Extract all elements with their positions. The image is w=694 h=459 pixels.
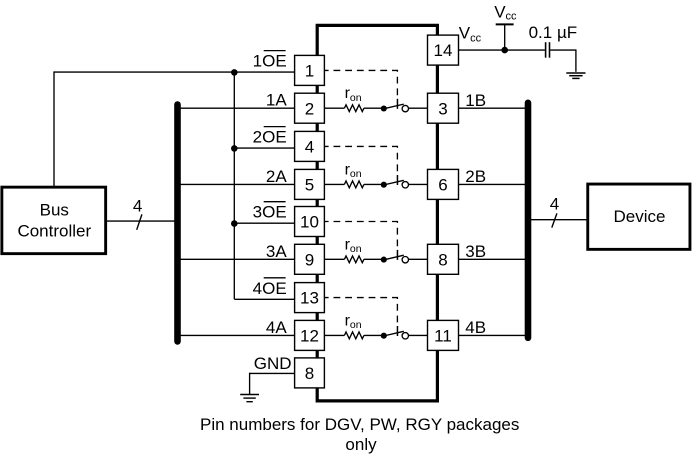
resistor r_on channel 1 bbox=[344, 85, 364, 111]
wire IC top rail bbox=[317, 25, 437, 56]
wire Vcc net pin 14 to capacitor bbox=[459, 49, 545, 51]
svg-text:1OE: 1OE bbox=[253, 52, 287, 71]
svg-text:Bus: Bus bbox=[40, 200, 69, 219]
svg-text:Pin numbers for DGV, PW, RGY p: Pin numbers for DGV, PW, RGY packages bbox=[200, 415, 519, 434]
wire left pin column spine bbox=[316, 160, 319, 170]
svg-text:2A: 2A bbox=[266, 167, 287, 186]
wire left pin column spine bbox=[316, 349, 319, 359]
switch arm channel 1 bbox=[384, 104, 404, 109]
svg-text:5: 5 bbox=[305, 176, 314, 195]
svg-text:12: 12 bbox=[300, 327, 319, 346]
net label 2OE bbox=[253, 127, 287, 147]
wire pin to resistor channel 3 bbox=[324, 258, 344, 260]
wire capacitor to ground corner bbox=[550, 49, 576, 51]
switch contact circle channel 2 bbox=[402, 182, 408, 188]
wire resistor to switch channel 3 bbox=[364, 258, 382, 260]
switch contact circle channel 4 bbox=[402, 333, 408, 339]
pin 13 (left) bbox=[295, 283, 325, 313]
pin 5 (left) bbox=[295, 169, 325, 199]
wire pin to resistor channel 1 bbox=[324, 107, 344, 109]
switch pole stroke channel 2 bbox=[396, 175, 398, 185]
wire resistor to switch channel 1 bbox=[364, 107, 382, 109]
svg-text:Device: Device bbox=[614, 207, 666, 226]
wire resistor to switch channel 2 bbox=[364, 183, 382, 185]
node left bus bar bbox=[174, 105, 181, 342]
pin 14 (right) bbox=[428, 35, 459, 65]
pin 12 (left) bbox=[295, 320, 325, 350]
wire GND down bbox=[249, 373, 251, 394]
wire 1OE net down to Bus Controller bbox=[53, 71, 55, 187]
wire 2A from bus bar bbox=[178, 183, 295, 185]
net label 3OE bbox=[253, 202, 287, 222]
Device block bbox=[588, 184, 690, 249]
wire GND pin 8 to ground bbox=[250, 372, 295, 374]
wire 3OE stub bbox=[234, 222, 294, 224]
wire left pin column spine bbox=[316, 312, 319, 322]
net label 4OE bbox=[253, 278, 287, 298]
dashed control wire channel 3 bbox=[324, 222, 397, 249]
wire 4A from bus bar bbox=[178, 334, 295, 336]
wire 3A from bus bar bbox=[178, 258, 295, 260]
wire right pin column spine bbox=[436, 64, 439, 94]
wire 4B to bus bar bbox=[459, 334, 529, 336]
wire IC bottom rail bbox=[317, 349, 437, 401]
caption text bbox=[200, 415, 519, 454]
wire left pin column spine bbox=[316, 122, 319, 132]
svg-text:4B: 4B bbox=[465, 318, 486, 337]
junction dot channel 3 bbox=[381, 257, 387, 263]
wire 2B to bus bar bbox=[459, 183, 529, 185]
wire right pin column spine bbox=[436, 198, 439, 245]
svg-text:8: 8 bbox=[438, 250, 447, 269]
resistor r_on channel 4 bbox=[344, 312, 364, 338]
svg-text:8: 8 bbox=[305, 364, 314, 383]
svg-text:4: 4 bbox=[305, 138, 314, 157]
pin 1 (left) bbox=[295, 55, 325, 85]
junction dot Vcc node bbox=[501, 47, 508, 54]
pin 8 (right) bbox=[428, 244, 459, 274]
svg-text:2OE: 2OE bbox=[253, 128, 287, 147]
switch arm channel 3 bbox=[384, 255, 404, 260]
wire bus bar to Device bbox=[528, 219, 588, 221]
pin 9 (left) bbox=[295, 244, 325, 274]
switch pole stroke channel 1 bbox=[396, 99, 398, 109]
wire right pin column spine bbox=[436, 273, 439, 321]
switch arm channel 4 bbox=[384, 331, 404, 336]
pin 11 (right) bbox=[428, 320, 459, 350]
net label 1OE bbox=[253, 51, 287, 71]
wire switch to pin channel 1 bbox=[408, 107, 427, 109]
capacitor C1 0.1 uF bbox=[529, 23, 578, 58]
wire left pin column spine bbox=[316, 84, 319, 94]
junction dot node 1OE bbox=[231, 69, 238, 76]
node right bus bar bbox=[525, 103, 532, 338]
switch contact circle channel 3 bbox=[402, 257, 408, 263]
svg-text:4: 4 bbox=[550, 195, 559, 214]
ground (decoupling) bbox=[566, 73, 585, 78]
wire 3B to bus bar bbox=[459, 258, 529, 260]
wire left pin column spine bbox=[316, 236, 319, 246]
wire 1A from bus bar bbox=[178, 107, 295, 109]
svg-text:14: 14 bbox=[434, 41, 453, 60]
wire resistor to switch channel 4 bbox=[364, 334, 382, 336]
svg-text:4OE: 4OE bbox=[253, 279, 287, 298]
wire switch to pin channel 3 bbox=[408, 258, 427, 260]
resistor r_on channel 2 bbox=[344, 161, 364, 187]
wire 1B to bus bar bbox=[459, 107, 529, 109]
junction dot channel 4 bbox=[381, 333, 387, 339]
wire 1OE net horizontal bbox=[54, 71, 295, 73]
dashed control wire channel 1 bbox=[324, 70, 397, 97]
svg-text:1B: 1B bbox=[465, 91, 486, 110]
svg-text:1A: 1A bbox=[266, 91, 287, 110]
svg-text:3OE: 3OE bbox=[253, 203, 287, 222]
pin 2 (left) bbox=[295, 93, 325, 123]
switch pole stroke channel 4 bbox=[396, 326, 398, 336]
pin 4 (left) bbox=[295, 131, 325, 161]
resistor r_on channel 3 bbox=[344, 236, 364, 262]
wire 4OE stub bbox=[234, 298, 294, 300]
svg-text:2: 2 bbox=[305, 99, 314, 118]
svg-text:2B: 2B bbox=[465, 167, 486, 186]
Vcc power symbol bbox=[494, 3, 517, 50]
pin 3 (right) bbox=[428, 93, 459, 123]
svg-text:only: only bbox=[345, 435, 377, 454]
wire Bus Controller to bus bar bbox=[107, 220, 178, 222]
pin 8 (left) bbox=[295, 358, 325, 388]
wire OE bus vertical bbox=[233, 72, 235, 299]
switch arm channel 2 bbox=[384, 180, 404, 185]
svg-text:13: 13 bbox=[300, 289, 319, 308]
pin 6 (right) bbox=[428, 169, 459, 199]
svg-text:3A: 3A bbox=[266, 242, 287, 261]
svg-text:Controller: Controller bbox=[17, 221, 91, 240]
svg-text:4: 4 bbox=[133, 196, 142, 215]
wire right pin column spine bbox=[436, 122, 439, 170]
dashed control wire channel 2 bbox=[324, 146, 397, 173]
svg-text:9: 9 bbox=[305, 250, 314, 269]
wire 2OE stub bbox=[234, 147, 294, 149]
bus width label 4 (left) bbox=[133, 196, 142, 230]
junction dot node 2OE bbox=[231, 145, 238, 152]
svg-text:11: 11 bbox=[434, 327, 452, 346]
junction dot channel 1 bbox=[381, 105, 387, 111]
wire down to ground bbox=[575, 49, 577, 71]
svg-text:4A: 4A bbox=[266, 318, 287, 337]
wire pin to resistor channel 2 bbox=[324, 183, 344, 185]
svg-text:6: 6 bbox=[438, 176, 447, 195]
ground (GND pin) bbox=[240, 395, 259, 402]
Bus Controller block bbox=[2, 187, 106, 254]
svg-text:3B: 3B bbox=[465, 242, 486, 261]
switch contact circle channel 1 bbox=[402, 105, 408, 111]
wire left pin column spine bbox=[316, 198, 319, 207]
svg-text:0.1 µF: 0.1 µF bbox=[529, 23, 578, 42]
bus width label 4 (right) bbox=[550, 195, 559, 228]
svg-text:10: 10 bbox=[300, 213, 319, 232]
wire pin to resistor channel 4 bbox=[324, 334, 344, 336]
svg-text:3: 3 bbox=[438, 99, 447, 118]
svg-text:GND: GND bbox=[254, 354, 292, 373]
junction dot channel 2 bbox=[381, 182, 387, 188]
pin 10 (left) bbox=[295, 207, 325, 237]
svg-text:1: 1 bbox=[305, 62, 314, 81]
junction dot node 3OE bbox=[231, 220, 238, 227]
switch pole stroke channel 3 bbox=[396, 250, 398, 260]
wire switch to pin channel 2 bbox=[408, 183, 427, 185]
wire switch to pin channel 4 bbox=[408, 334, 427, 336]
wire left pin column spine bbox=[316, 273, 319, 283]
dashed control wire channel 4 bbox=[324, 298, 397, 325]
